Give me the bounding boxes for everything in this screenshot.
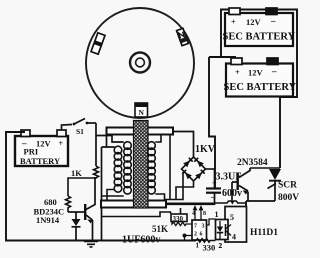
svg-text:4: 4 xyxy=(192,211,195,217)
svg-text:800V: 800V xyxy=(278,193,299,203)
svg-text:680: 680 xyxy=(44,197,57,207)
svg-text:+: + xyxy=(235,68,240,77)
svg-text:N: N xyxy=(138,108,144,117)
svg-text:5: 5 xyxy=(230,213,234,222)
svg-text:PRI: PRI xyxy=(24,147,39,157)
svg-text:+: + xyxy=(59,139,64,148)
svg-text:12V: 12V xyxy=(36,139,52,149)
svg-text:SEC BATTERY: SEC BATTERY xyxy=(224,82,297,93)
svg-text:330: 330 xyxy=(203,243,216,253)
svg-text:1N914: 1N914 xyxy=(36,215,60,225)
svg-text:BATTERY: BATTERY xyxy=(20,156,60,166)
svg-text:51K: 51K xyxy=(152,224,168,234)
svg-text:2: 2 xyxy=(219,241,223,250)
svg-text:12V: 12V xyxy=(248,68,264,78)
svg-text:1: 1 xyxy=(196,242,200,250)
svg-text:S1: S1 xyxy=(76,127,84,136)
svg-text:2: 2 xyxy=(194,232,197,238)
svg-text:1KV: 1KV xyxy=(195,144,216,155)
svg-text:2N3584: 2N3584 xyxy=(237,158,268,168)
svg-text:8: 8 xyxy=(203,211,206,217)
svg-text:7: 7 xyxy=(194,224,197,230)
svg-text:SCR: SCR xyxy=(278,181,297,191)
svg-text:SEC BATTERY: SEC BATTERY xyxy=(223,32,296,43)
svg-text:1K: 1K xyxy=(71,168,82,178)
svg-text:3: 3 xyxy=(202,224,205,230)
svg-text:1UF600v: 1UF600v xyxy=(122,235,160,246)
svg-text:–: – xyxy=(271,66,277,76)
svg-text:1: 1 xyxy=(215,210,219,219)
svg-text:H11D1: H11D1 xyxy=(250,228,278,238)
svg-text:+: + xyxy=(231,18,236,27)
svg-text:4: 4 xyxy=(232,233,236,242)
svg-text:6: 6 xyxy=(200,232,203,238)
svg-text:–: – xyxy=(270,16,276,26)
svg-text:12V: 12V xyxy=(246,17,262,27)
